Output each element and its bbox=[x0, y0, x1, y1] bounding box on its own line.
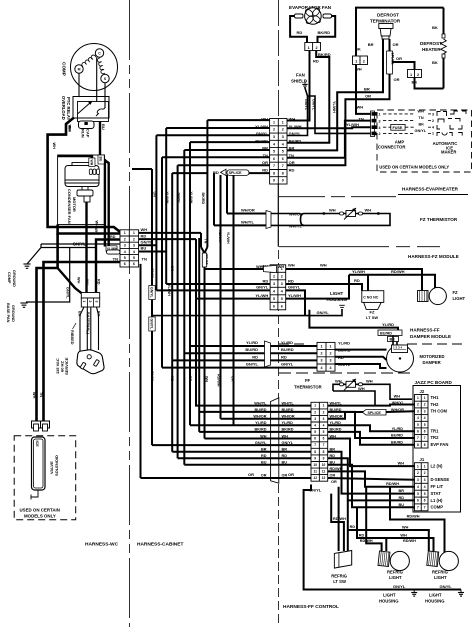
svg-text:HARNESS-FF CONTROL: HARNESS-FF CONTROL bbox=[283, 604, 339, 610]
svg-text:FAN: FAN bbox=[296, 73, 305, 78]
svg-text:3: 3 bbox=[379, 119, 381, 123]
svg-text:BK/RD: BK/RD bbox=[201, 193, 205, 205]
svg-text:WH: WH bbox=[400, 533, 407, 537]
svg-text:SPLICE: SPLICE bbox=[229, 171, 243, 175]
svg-text:5: 5 bbox=[281, 297, 283, 301]
svg-text:LIGHT: LIGHT bbox=[389, 575, 402, 580]
svg-text:USED ON CERTAIN: USED ON CERTAIN bbox=[20, 508, 60, 513]
svg-text:WH: WH bbox=[77, 277, 81, 284]
svg-text:2: 2 bbox=[282, 128, 284, 132]
svg-text:OR: OR bbox=[394, 77, 400, 82]
svg-text:CAP: CAP bbox=[86, 129, 91, 138]
svg-text:YL/WH: YL/WH bbox=[255, 293, 268, 298]
svg-text:SOLENOID: SOLENOID bbox=[54, 455, 59, 476]
svg-text:6: 6 bbox=[424, 499, 426, 503]
svg-text:1: 1 bbox=[124, 231, 126, 235]
divider harness-wc/cabinet bbox=[129, 0, 131, 627]
svg-text:HARNESS-FZ MODULE: HARNESS-FZ MODULE bbox=[408, 254, 459, 259]
svg-text:10: 10 bbox=[313, 463, 317, 467]
9pin bottom stub bbox=[277, 184, 279, 247]
svg-text:WH: WH bbox=[358, 386, 365, 391]
svg-text:1: 1 bbox=[330, 344, 332, 348]
base pan ground bbox=[20, 303, 27, 307]
svg-text:WH: WH bbox=[261, 117, 268, 122]
svg-text:7: 7 bbox=[424, 506, 426, 510]
svg-text:CONNECTOR: CONNECTOR bbox=[378, 145, 407, 150]
svg-text:3: 3 bbox=[432, 113, 434, 117]
svg-text:RD/WH: RD/WH bbox=[391, 269, 405, 274]
svg-text:2: 2 bbox=[88, 301, 92, 303]
svg-text:LT SW: LT SW bbox=[333, 579, 346, 584]
svg-text:L1 (H): L1 (H) bbox=[431, 498, 443, 503]
svg-text:2: 2 bbox=[424, 403, 426, 407]
svg-text:DEFROST: DEFROST bbox=[420, 41, 442, 46]
svg-text:BR: BR bbox=[399, 489, 405, 493]
merged WH down bbox=[204, 267, 206, 439]
svg-text:RD/WH: RD/WH bbox=[218, 230, 222, 243]
svg-text:6: 6 bbox=[323, 437, 325, 441]
svg-text:WH: WH bbox=[365, 208, 372, 213]
svg-text:3: 3 bbox=[273, 282, 275, 286]
svg-text:FUSE: FUSE bbox=[393, 126, 403, 130]
svg-text:RUN: RUN bbox=[81, 129, 86, 138]
svg-text:4: 4 bbox=[281, 289, 283, 293]
wire relay BU down bbox=[99, 122, 101, 158]
svg-text:BK: BK bbox=[432, 60, 438, 65]
divider cabinet/ff bbox=[278, 0, 280, 117]
svg-text:1: 1 bbox=[314, 404, 316, 408]
svg-text:7: 7 bbox=[314, 443, 316, 447]
svg-text:J2: J2 bbox=[420, 389, 425, 394]
svg-text:12: 12 bbox=[322, 476, 326, 480]
svg-text:OR: OR bbox=[365, 94, 371, 99]
svg-text:1: 1 bbox=[323, 404, 325, 408]
svg-text:TN: TN bbox=[419, 116, 424, 120]
svg-text:3: 3 bbox=[282, 135, 284, 139]
wire RD 6pin to basepan pin3 bbox=[95, 240, 120, 299]
svg-text:2: 2 bbox=[273, 274, 275, 278]
svg-text:HARNESS-EVAP/HEATER: HARNESS-EVAP/HEATER bbox=[402, 186, 459, 191]
svg-text:TN: TN bbox=[204, 239, 208, 244]
svg-text:3: 3 bbox=[133, 244, 135, 248]
svg-text:TN: TN bbox=[39, 392, 43, 397]
svg-text:STAT: STAT bbox=[431, 491, 442, 496]
svg-text:5: 5 bbox=[417, 423, 419, 427]
svg-text:GN/YL: GN/YL bbox=[393, 584, 406, 589]
svg-text:BK/RD: BK/RD bbox=[318, 52, 331, 57]
svg-text:2: 2 bbox=[432, 119, 434, 123]
svg-text:3: 3 bbox=[273, 135, 275, 139]
svg-text:GN/YL: GN/YL bbox=[288, 285, 301, 290]
svg-text:D-SENSE: D-SENSE bbox=[431, 477, 450, 482]
svg-text:7: 7 bbox=[323, 443, 325, 447]
svg-text:4: 4 bbox=[417, 485, 419, 489]
fz left wires bbox=[205, 268, 271, 270]
svg-text:HARNESS-FF: HARNESS-FF bbox=[410, 328, 440, 333]
svg-text:8: 8 bbox=[273, 171, 275, 175]
svg-text:GN/YL: GN/YL bbox=[256, 131, 269, 136]
svg-text:RD: RD bbox=[289, 167, 295, 172]
svg-text:8: 8 bbox=[323, 450, 325, 454]
svg-text:5: 5 bbox=[417, 492, 419, 496]
svg-text:9: 9 bbox=[282, 179, 284, 183]
amp connector bracket bbox=[371, 111, 375, 137]
svg-text:HOUSING: HOUSING bbox=[425, 599, 445, 604]
bottom gn/yl rail bbox=[304, 485, 461, 590]
svg-text:WH: WH bbox=[141, 227, 148, 232]
svg-text:5: 5 bbox=[282, 150, 284, 154]
svg-text:BU/RD: BU/RD bbox=[245, 347, 258, 352]
splice wh/or bbox=[328, 412, 366, 419]
svg-text:JAZZ PC BOARD: JAZZ PC BOARD bbox=[415, 380, 453, 385]
svg-text:LIGHT: LIGHT bbox=[453, 296, 466, 301]
splice vertical bbox=[387, 51, 393, 74]
svg-text:2: 2 bbox=[273, 128, 275, 132]
svg-text:7: 7 bbox=[282, 164, 284, 168]
svg-text:1: 1 bbox=[308, 46, 310, 50]
wire left rail WH y169 bbox=[132, 168, 152, 170]
svg-text:FZ THERMISTOR: FZ THERMISTOR bbox=[420, 217, 458, 222]
svg-text:GN/YL: GN/YL bbox=[317, 310, 330, 315]
svg-text:BU: BU bbox=[399, 503, 405, 507]
svg-text:4: 4 bbox=[273, 142, 275, 146]
svg-text:GROUND: GROUND bbox=[12, 270, 16, 287]
svg-text:LIGHT: LIGHT bbox=[429, 593, 442, 598]
fz therm left wires bbox=[227, 213, 266, 215]
svg-text:ICE: ICE bbox=[35, 441, 39, 448]
svg-text:HOUSING: HOUSING bbox=[379, 599, 399, 604]
svg-text:LIGHT: LIGHT bbox=[330, 291, 343, 296]
svg-text:LIGHT: LIGHT bbox=[383, 593, 396, 598]
svg-text:DAMPER: DAMPER bbox=[423, 360, 441, 365]
svg-text:GN/YL: GN/YL bbox=[65, 287, 69, 299]
svg-text:GN/YL: GN/YL bbox=[150, 319, 154, 331]
svg-text:4: 4 bbox=[133, 250, 135, 254]
svg-text:3: 3 bbox=[321, 359, 323, 363]
svg-text:3: 3 bbox=[417, 478, 419, 482]
condenser fan motor bbox=[65, 163, 100, 224]
svg-text:4: 4 bbox=[321, 366, 323, 370]
svg-text:EVP FAN: EVP FAN bbox=[431, 442, 449, 447]
svg-text:7: 7 bbox=[273, 164, 275, 168]
svg-text:5: 5 bbox=[424, 423, 426, 427]
svg-text:BR: BR bbox=[368, 42, 374, 47]
svg-text:TH2: TH2 bbox=[431, 402, 440, 407]
svg-text:GN/YL: GN/YL bbox=[150, 287, 154, 299]
svg-text:MAKER: MAKER bbox=[441, 150, 456, 155]
svg-text:3: 3 bbox=[424, 478, 426, 482]
svg-text:SPLICE: SPLICE bbox=[205, 254, 209, 265]
svg-text:WH: WH bbox=[402, 526, 409, 530]
svg-text:2: 2 bbox=[417, 403, 419, 407]
svg-text:J1: J1 bbox=[420, 457, 425, 462]
defrost htr branch OR bbox=[392, 62, 414, 70]
svg-text:GN/YL: GN/YL bbox=[73, 241, 87, 246]
svg-text:OR: OR bbox=[396, 56, 402, 61]
svg-text:6: 6 bbox=[314, 437, 316, 441]
svg-text:3: 3 bbox=[323, 417, 325, 421]
FZ LT SW bbox=[362, 291, 384, 320]
svg-text:MODELS ONLY: MODELS ONLY bbox=[24, 514, 56, 519]
svg-text:DEFROST: DEFROST bbox=[377, 13, 399, 18]
svg-text:RD: RD bbox=[359, 533, 365, 537]
YL/WH boxed label + capsule row4 bbox=[106, 246, 117, 251]
svg-text:8: 8 bbox=[282, 171, 284, 175]
splice WH merge bbox=[201, 247, 205, 253]
svg-text:RD: RD bbox=[354, 278, 360, 283]
svg-text:6: 6 bbox=[281, 304, 283, 308]
svg-text:2: 2 bbox=[314, 410, 316, 414]
svg-text:TN: TN bbox=[113, 257, 118, 262]
svg-text:5: 5 bbox=[124, 256, 126, 260]
svg-text:WH: WH bbox=[90, 160, 94, 166]
svg-text:HEATER: HEATER bbox=[422, 47, 441, 52]
evap fan output wires bbox=[287, 51, 310, 121]
basepan connector bbox=[81, 293, 99, 299]
svg-text:YL/RD: YL/RD bbox=[382, 322, 394, 327]
svg-text:WH: WH bbox=[329, 208, 336, 213]
svg-text:FZ: FZ bbox=[453, 290, 459, 295]
svg-text:1 2 3 4: 1 2 3 4 bbox=[393, 346, 403, 350]
svg-text:M: M bbox=[78, 68, 81, 72]
refrig light 2 bbox=[427, 551, 459, 580]
svg-text:2: 2 bbox=[315, 46, 317, 50]
svg-text:OR: OR bbox=[331, 480, 337, 484]
svg-text:CONDENSER FAN: CONDENSER FAN bbox=[67, 189, 72, 224]
svg-text:3: 3 bbox=[281, 282, 283, 286]
svg-text:FF: FF bbox=[305, 378, 311, 383]
evaporator fan bbox=[289, 5, 332, 25]
svg-text:BR: BR bbox=[364, 87, 370, 92]
svg-text:RD/WH: RD/WH bbox=[360, 539, 373, 543]
solenoid terminals bbox=[32, 421, 41, 428]
svg-text:WH: WH bbox=[357, 105, 364, 110]
svg-text:YL/RD: YL/RD bbox=[281, 340, 293, 345]
svg-text:11: 11 bbox=[314, 470, 318, 474]
svg-text:MOTORIZED: MOTORIZED bbox=[420, 354, 445, 359]
damper wedge bbox=[265, 341, 271, 367]
svg-text:8: 8 bbox=[417, 443, 419, 447]
svg-text:RD: RD bbox=[297, 30, 303, 35]
defrost terminator bbox=[370, 13, 401, 40]
svg-text:BK: BK bbox=[419, 123, 425, 127]
svg-text:THERMISTOR: THERMISTOR bbox=[294, 385, 322, 390]
svg-text:OR: OR bbox=[393, 42, 399, 47]
amp connector wires bbox=[287, 121, 371, 158]
svg-text:WH: WH bbox=[398, 462, 405, 466]
svg-text:4: 4 bbox=[282, 142, 284, 146]
svg-text:MOTOR: MOTOR bbox=[72, 197, 77, 212]
svg-text:4: 4 bbox=[417, 416, 419, 420]
svg-text:5: 5 bbox=[323, 430, 325, 434]
FZ light bbox=[418, 287, 466, 304]
svg-text:10: 10 bbox=[322, 463, 326, 467]
svg-text:3: 3 bbox=[417, 409, 419, 413]
svg-text:TH1: TH1 bbox=[431, 395, 440, 400]
svg-text:TN: TN bbox=[359, 117, 364, 122]
svg-text:1: 1 bbox=[410, 73, 412, 77]
svg-text:4: 4 bbox=[124, 250, 126, 254]
svg-text:11: 11 bbox=[322, 470, 326, 474]
svg-text:OR: OR bbox=[153, 192, 157, 198]
svg-text:3: 3 bbox=[424, 409, 426, 413]
svg-text:COMP: COMP bbox=[62, 62, 67, 76]
svg-text:4: 4 bbox=[379, 126, 381, 130]
svg-text:OVERLOAD: OVERLOAD bbox=[61, 96, 66, 120]
dashed box ice maker bbox=[377, 110, 472, 172]
svg-text:4: 4 bbox=[314, 424, 316, 428]
svg-text:WH: WH bbox=[204, 376, 208, 382]
svg-text:2: 2 bbox=[424, 471, 426, 475]
svg-text:AUTOMATIC: AUTOMATIC bbox=[433, 141, 458, 146]
svg-text:YL/RD: YL/RD bbox=[246, 340, 258, 345]
svg-text:1: 1 bbox=[424, 396, 426, 400]
svg-text:TR2: TR2 bbox=[431, 435, 440, 440]
svg-text:9: 9 bbox=[273, 179, 275, 183]
svg-text:GN/YL: GN/YL bbox=[415, 129, 427, 133]
svg-text:YL/WH: YL/WH bbox=[332, 101, 336, 113]
svg-text:2: 2 bbox=[124, 237, 126, 241]
svg-text:TN: TN bbox=[142, 257, 147, 262]
fuse bbox=[383, 113, 414, 115]
defrost terminator conn 1 2 bbox=[353, 56, 368, 65]
svg-text:5: 5 bbox=[133, 256, 135, 260]
svg-text:RD/WH: RD/WH bbox=[407, 515, 420, 519]
wire TN row6 bbox=[44, 262, 120, 421]
svg-text:1: 1 bbox=[282, 120, 284, 124]
svg-text:OR: OR bbox=[231, 376, 235, 382]
compressor leads bbox=[78, 73, 80, 96]
svg-text:BK/RD: BK/RD bbox=[255, 138, 268, 143]
svg-text:1: 1 bbox=[133, 231, 135, 235]
svg-text:YL/WH: YL/WH bbox=[189, 192, 193, 204]
svg-text:8: 8 bbox=[424, 443, 426, 447]
svg-text:3: 3 bbox=[314, 417, 316, 421]
svg-text:WH: WH bbox=[52, 143, 56, 150]
gn/yl vert + label bbox=[26, 248, 70, 303]
svg-text:RD/WH: RD/WH bbox=[386, 482, 399, 486]
wire bundle verticals bbox=[140, 264, 142, 478]
svg-text:RD: RD bbox=[262, 167, 268, 172]
evap fan connector 1 2 bbox=[305, 43, 321, 51]
svg-text:LIGHT: LIGHT bbox=[434, 575, 447, 580]
svg-text:C NO NC: C NO NC bbox=[363, 296, 379, 300]
svg-text:GN/YL: GN/YL bbox=[177, 193, 181, 205]
svg-text:RD: RD bbox=[281, 354, 287, 359]
svg-text:RD/WH: RD/WH bbox=[217, 374, 221, 387]
svg-text:RD: RD bbox=[110, 235, 116, 239]
svg-text:WH: WH bbox=[278, 265, 285, 269]
svg-text:OR: OR bbox=[262, 160, 268, 165]
power cord bbox=[86, 307, 88, 350]
wedge 12pin harness crossing bbox=[271, 398, 279, 483]
used-on dashed box (solenoid) bbox=[14, 436, 75, 520]
svg-text:4: 4 bbox=[323, 424, 325, 428]
wire fan stem to basepan pin2 bbox=[87, 202, 89, 298]
svg-text:RD: RD bbox=[170, 376, 174, 382]
svg-text:YL/RD: YL/RD bbox=[338, 341, 350, 346]
connector damper 4-pin bbox=[317, 342, 335, 371]
svg-text:7: 7 bbox=[417, 436, 419, 440]
svg-text:5: 5 bbox=[424, 492, 426, 496]
FZ thermistor bbox=[289, 208, 458, 229]
svg-text:5: 5 bbox=[314, 430, 316, 434]
svg-text:REFRIG: REFRIG bbox=[331, 574, 347, 579]
svg-text:2: 2 bbox=[330, 352, 332, 356]
9pin row wires bbox=[207, 119, 269, 121]
svg-text:3: 3 bbox=[94, 301, 98, 303]
svg-text:6: 6 bbox=[417, 499, 419, 503]
svg-text:6: 6 bbox=[273, 304, 275, 308]
svg-text:YL/WH: YL/WH bbox=[165, 192, 169, 204]
compressor COMP bbox=[62, 44, 118, 91]
svg-text:DAMPER MODULE: DAMPER MODULE bbox=[410, 334, 451, 339]
svg-text:BK: BK bbox=[432, 25, 438, 30]
svg-text:4: 4 bbox=[424, 485, 426, 489]
svg-text:COMP: COMP bbox=[7, 272, 11, 284]
refrig wires bbox=[331, 494, 344, 551]
evap fan loop wires bbox=[290, 16, 307, 43]
svg-text:SPLICE: SPLICE bbox=[368, 411, 382, 415]
refrig lt sw bbox=[331, 551, 351, 585]
svg-text:9: 9 bbox=[314, 456, 316, 460]
svg-text:2: 2 bbox=[363, 60, 365, 64]
svg-text:6: 6 bbox=[133, 262, 135, 266]
svg-text:1: 1 bbox=[424, 464, 426, 468]
svg-text:USED ON CERTAIN MODELS ONLY: USED ON CERTAIN MODELS ONLY bbox=[379, 164, 449, 169]
svg-text:WH/OR: WH/OR bbox=[241, 208, 255, 213]
svg-text:2: 2 bbox=[417, 471, 419, 475]
connector evap 9-pin bbox=[270, 119, 287, 185]
svg-text:GN/YL: GN/YL bbox=[256, 285, 269, 290]
wedge fz wh crossing bbox=[264, 265, 277, 272]
connector J1 7-pin bbox=[415, 463, 429, 511]
svg-text:1: 1 bbox=[432, 132, 434, 136]
svg-text:2: 2 bbox=[281, 274, 283, 278]
svg-text:TR1: TR1 bbox=[431, 429, 440, 434]
svg-text:4: 4 bbox=[424, 416, 426, 420]
svg-text:WH: WH bbox=[95, 221, 99, 228]
svg-text:9: 9 bbox=[323, 456, 325, 460]
svg-text:GN/YL: GN/YL bbox=[150, 371, 154, 383]
svg-text:RD: RD bbox=[350, 525, 356, 529]
svg-text:1: 1 bbox=[417, 396, 419, 400]
wire pair to fan circuit BU bbox=[100, 157, 105, 247]
svg-text:RD: RD bbox=[252, 354, 258, 359]
svg-text:TERMINATOR: TERMINATOR bbox=[370, 19, 401, 24]
svg-text:RD: RD bbox=[213, 170, 219, 175]
connector J2 8-pin bbox=[415, 395, 429, 449]
svg-text:TH COM: TH COM bbox=[431, 408, 448, 413]
separator harness-ff damper module bbox=[279, 343, 305, 345]
svg-text:7: 7 bbox=[417, 506, 419, 510]
svg-text:RD: RD bbox=[263, 278, 269, 283]
ice solenoid valve bbox=[32, 437, 60, 490]
svg-text:5: 5 bbox=[273, 150, 275, 154]
OR long wire bbox=[141, 477, 312, 479]
svg-text:WH: WH bbox=[418, 109, 425, 113]
svg-text:BU: BU bbox=[101, 124, 106, 130]
svg-text:7: 7 bbox=[424, 436, 426, 440]
WH BU boxed labels at fan bbox=[89, 158, 95, 167]
motorized damper bbox=[387, 345, 445, 372]
svg-text:6: 6 bbox=[424, 429, 426, 433]
svg-text:TN: TN bbox=[263, 153, 268, 158]
svg-text:YL/WH: YL/WH bbox=[288, 293, 301, 298]
damper connections bbox=[392, 336, 394, 346]
YL/RD feed to damper bbox=[309, 310, 398, 330]
svg-text:GN/YL: GN/YL bbox=[304, 99, 308, 111]
